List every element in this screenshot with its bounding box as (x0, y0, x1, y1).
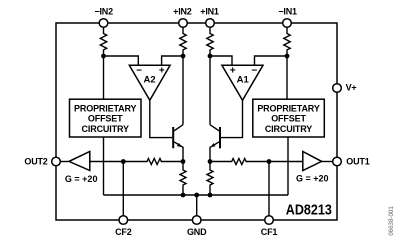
wire -IN1 node to offset box top (286, 56, 288, 99)
svg-text:−: − (251, 66, 257, 77)
outer boundary rectangle (56, 23, 337, 220)
pin -IN2 (99, 19, 108, 28)
wire A2 output to Q2 base (150, 100, 172, 137)
svg-text:PROPRIETARY: PROPRIETARY (257, 103, 320, 113)
svg-text:CF1: CF1 (261, 227, 278, 237)
svg-text:CF2: CF2 (115, 227, 132, 237)
svg-text:OUT2: OUT2 (24, 156, 47, 166)
proprietary offset circuitry box (channel 1) (253, 99, 324, 137)
svg-text:−IN2: −IN2 (94, 6, 113, 16)
transistor Q2 (173, 125, 183, 162)
pin GND (192, 216, 201, 225)
svg-text:G = +20: G = +20 (296, 174, 329, 184)
wire offset box 1 bottom to bottom rail (287, 137, 289, 195)
buffer amplifier G=+20 (channel 1) (296, 152, 333, 184)
svg-text:+IN1: +IN1 (200, 6, 219, 16)
node CF1 branch (267, 159, 272, 164)
svg-text:V+: V+ (346, 83, 357, 93)
wire -IN2 node to offset box top (103, 56, 105, 99)
resistor R7 (Q2 emitter to rail) (180, 162, 186, 196)
svg-text:A1: A1 (237, 74, 250, 85)
svg-text:CIRCUITRY: CIRCUITRY (265, 124, 312, 134)
buffer amplifier G=+20 (channel 2) (60, 152, 97, 185)
resistor R8 (Q1 emitter to rail) (207, 162, 213, 196)
wire OUT2 line with resistor R5 (90, 159, 183, 165)
wire Q1 collector to +IN1 node (209, 56, 211, 125)
svg-text:−IN1: −IN1 (278, 6, 297, 16)
svg-text:GND: GND (187, 227, 207, 237)
node rail GND (194, 193, 199, 198)
wire A1 output to Q1 base (221, 100, 243, 137)
pin +IN2 (179, 19, 188, 28)
wire offset box 2 bottom to bottom rail (103, 137, 105, 195)
node CF2 branch (121, 159, 126, 164)
svg-text:OFFSET: OFFSET (271, 114, 306, 124)
transistor Q1 (210, 125, 220, 162)
node Q2 emitter junction (181, 159, 186, 164)
wire Q2 collector to +IN2 node (182, 56, 184, 125)
wire CF2 (122, 162, 124, 216)
resistor R4 (below -IN1) (284, 27, 290, 56)
resistor R2 (below +IN2) (180, 27, 186, 56)
op-amp A1 (222, 65, 263, 100)
svg-text:A2: A2 (144, 74, 156, 85)
pin OUT2 (52, 157, 61, 166)
svg-text:+: + (159, 66, 165, 77)
pin V+ (333, 84, 342, 93)
node -IN2 junction (101, 54, 106, 59)
node -IN1 junction (285, 54, 290, 59)
node Q1 emitter junction (208, 159, 213, 164)
wire A1 noninverting input (210, 56, 232, 65)
wire CF1 (268, 162, 270, 216)
node rail R8 (208, 193, 213, 198)
wire A2 noninverting input (162, 56, 183, 65)
svg-text:+IN2: +IN2 (173, 6, 192, 16)
pin OUT1 (333, 157, 342, 166)
proprietary offset circuitry box (channel 2) (70, 99, 142, 137)
svg-text:OUT1: OUT1 (346, 156, 369, 166)
resistor R1 (below -IN2) (100, 27, 106, 56)
op-amp A2 (129, 65, 170, 100)
pin +IN1 (206, 19, 215, 28)
svg-text:G = +20: G = +20 (65, 174, 98, 184)
resistor R3 (below +IN1) (207, 27, 213, 56)
svg-text:06638-001: 06638-001 (388, 206, 395, 236)
node +IN2 junction (181, 54, 186, 59)
wire GND stub (196, 195, 198, 216)
svg-text:CIRCUITRY: CIRCUITRY (82, 124, 129, 134)
svg-text:PROPRIETARY: PROPRIETARY (74, 103, 137, 113)
pin terminals (52, 19, 342, 225)
wire A2 inverting input (104, 56, 139, 65)
svg-text:+: + (230, 66, 236, 77)
wire A1 inverting input (255, 56, 288, 65)
pin CF2 (119, 216, 128, 225)
pin -IN1 (283, 19, 292, 28)
wire OUT1 line with resistor R6 (210, 159, 303, 165)
pin CF1 (265, 216, 274, 225)
svg-text:−: − (136, 66, 142, 77)
node rail R7 (181, 193, 186, 198)
svg-text:AD8213: AD8213 (286, 203, 332, 219)
bottom rail wire (104, 194, 289, 196)
svg-text:OFFSET: OFFSET (88, 114, 123, 124)
node +IN1 junction (208, 54, 213, 59)
